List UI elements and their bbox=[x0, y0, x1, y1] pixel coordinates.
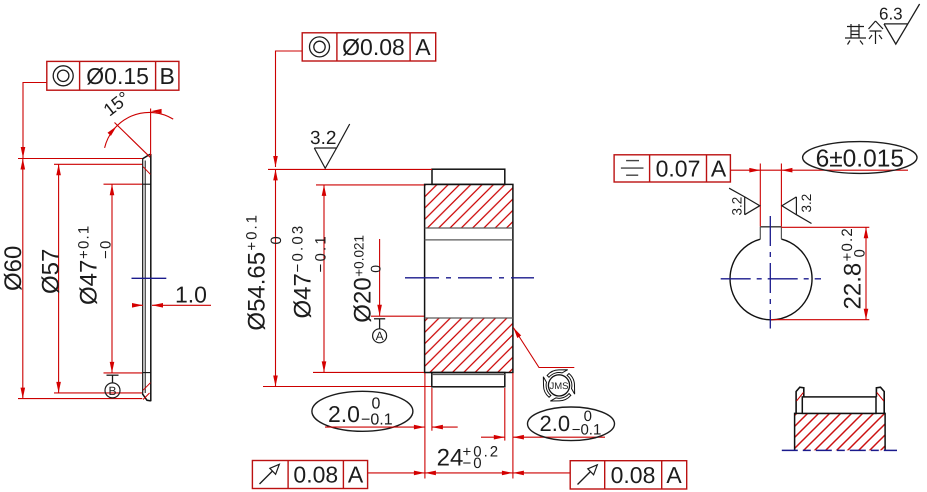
svg-text:2.0: 2.0 bbox=[328, 401, 360, 427]
svg-text:−0: −0 bbox=[98, 239, 115, 259]
svg-text:6±0.015: 6±0.015 bbox=[816, 146, 904, 173]
svg-text:0.08: 0.08 bbox=[293, 462, 338, 488]
svg-text:−0: −0 bbox=[463, 455, 484, 472]
svg-text:A: A bbox=[348, 462, 364, 488]
svg-text:Ø47: Ø47 bbox=[76, 260, 103, 305]
svg-text:Ø60: Ø60 bbox=[0, 246, 27, 291]
svg-text:3.2: 3.2 bbox=[799, 194, 814, 213]
svg-text:+0.021: +0.021 bbox=[351, 235, 366, 277]
svg-text:JMS: JMS bbox=[550, 381, 569, 392]
svg-text:2.0: 2.0 bbox=[540, 411, 571, 436]
svg-text:A: A bbox=[711, 156, 727, 182]
svg-text:22.8: 22.8 bbox=[840, 263, 867, 310]
svg-text:Ø20: Ø20 bbox=[349, 277, 376, 322]
svg-text:−0.1: −0.1 bbox=[312, 234, 329, 272]
svg-text:Ø47: Ø47 bbox=[289, 273, 316, 318]
svg-text:A: A bbox=[666, 462, 682, 488]
svg-text:0: 0 bbox=[268, 236, 285, 244]
svg-text:−0.1: −0.1 bbox=[361, 412, 393, 429]
svg-text:+0.1: +0.1 bbox=[76, 225, 93, 259]
svg-text:Ø57: Ø57 bbox=[38, 249, 65, 294]
svg-text:3.2: 3.2 bbox=[730, 197, 745, 216]
svg-text:1.0: 1.0 bbox=[175, 282, 207, 308]
svg-text:Ø0.15: Ø0.15 bbox=[86, 63, 149, 89]
svg-text:0: 0 bbox=[372, 396, 381, 413]
svg-text:0.07: 0.07 bbox=[656, 156, 701, 182]
svg-text:6.3: 6.3 bbox=[879, 5, 903, 24]
svg-text:−0.1: −0.1 bbox=[572, 422, 602, 439]
svg-text:B: B bbox=[160, 63, 175, 89]
svg-text:A: A bbox=[415, 34, 431, 60]
svg-text:+0.1: +0.1 bbox=[244, 213, 261, 251]
svg-text:0: 0 bbox=[852, 249, 869, 257]
svg-text:Ø54.65: Ø54.65 bbox=[244, 252, 271, 331]
svg-text:B: B bbox=[108, 384, 116, 398]
svg-text:3.2: 3.2 bbox=[310, 128, 336, 149]
svg-text:Ø0.08: Ø0.08 bbox=[342, 34, 405, 60]
svg-text:−0.03: −0.03 bbox=[289, 224, 306, 273]
svg-text:0.08: 0.08 bbox=[611, 462, 656, 488]
svg-text:A: A bbox=[376, 329, 384, 343]
svg-text:24: 24 bbox=[437, 445, 464, 472]
svg-text:0: 0 bbox=[367, 265, 383, 273]
